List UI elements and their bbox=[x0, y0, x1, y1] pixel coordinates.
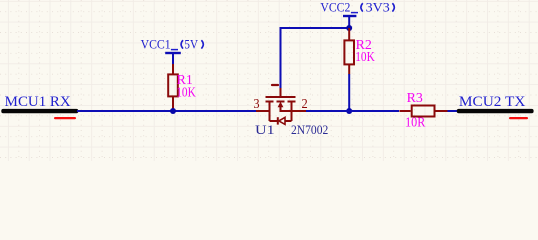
svg-text:10R: 10R bbox=[405, 115, 426, 130]
power port VCC2_(3V3) label bbox=[320, 0, 394, 14]
svg-text:10K: 10K bbox=[355, 49, 375, 64]
junction: R2 / output wire bbox=[346, 108, 352, 114]
svg-text:U1: U1 bbox=[255, 123, 275, 137]
power port VCC1 bar symbol bbox=[165, 53, 181, 64]
channel contact right bbox=[288, 101, 296, 103]
svg-text:VCC2: VCC2 bbox=[320, 0, 350, 14]
svg-text:2: 2 bbox=[302, 96, 308, 111]
pin 3 lead bbox=[256, 110, 270, 112]
power port VCC1_(5V) label bbox=[141, 37, 204, 51]
svg-text:3V3: 3V3 bbox=[366, 0, 390, 14]
channel contact middle bbox=[277, 101, 285, 103]
svg-text:3: 3 bbox=[253, 96, 260, 111]
wire: VCC2 to gate (horizontal + vertical to Q1 gate) bbox=[281, 28, 350, 88]
channel contact left bbox=[266, 101, 274, 103]
drain leg (pin 3 side) bbox=[269, 102, 271, 122]
resistor R2 pin 1 lead bbox=[348, 28, 350, 40]
svg-text:10K: 10K bbox=[176, 84, 196, 99]
resistor R2 body bbox=[344, 40, 354, 64]
pin number 1 (rotated) bbox=[272, 84, 278, 86]
gate bar bbox=[266, 96, 296, 98]
pin 2 lead bbox=[292, 110, 307, 112]
resistor R2 pin 2 lead bbox=[348, 64, 350, 74]
source leg (pin 2 side) bbox=[291, 102, 293, 122]
red marker under MCU2 TX bbox=[509, 117, 528, 119]
wire: R3 to MCU2 TX stub bbox=[448, 110, 460, 112]
svg-text:MCU1 RX: MCU1 RX bbox=[5, 94, 71, 110]
wire: Q1 pin 2 to R3 bbox=[306, 110, 399, 112]
body diode cathode bar bbox=[277, 117, 279, 124]
wire MCU1 RX thick stub bbox=[1, 109, 78, 113]
resistor R3 pin 1 lead bbox=[399, 110, 410, 112]
svg-text:5V: 5V bbox=[184, 37, 198, 51]
wire MCU2 TX thick stub bbox=[457, 109, 534, 113]
power port VCC2 bar symbol bbox=[343, 16, 356, 28]
resistor R1 pin 1 lead bbox=[172, 64, 174, 74]
body stub to source bbox=[281, 107, 292, 112]
wire: R2 to output net bbox=[348, 74, 350, 111]
red marker under MCU1 RX bbox=[54, 117, 76, 119]
transistor U1 (2N7002 N-MOSFET) bbox=[256, 88, 306, 125]
resistor R1 body bbox=[168, 74, 178, 96]
svg-text:2N7002: 2N7002 bbox=[291, 123, 328, 137]
wire: MCU1 RX to Q1 pin 3 bbox=[77, 110, 256, 112]
svg-text:VCC1: VCC1 bbox=[141, 37, 171, 51]
body diode triangle bbox=[279, 117, 285, 124]
pin 1 gate lead bbox=[280, 88, 282, 97]
body arrow (N-channel) bbox=[278, 102, 284, 108]
resistor R1 pin 2 lead bbox=[172, 96, 174, 111]
junction: VCC2 / R2 / gate wire bbox=[346, 25, 352, 31]
svg-text:MCU2 TX: MCU2 TX bbox=[459, 94, 526, 110]
resistor R3 pin 2 lead bbox=[436, 110, 448, 112]
svg-text:R3: R3 bbox=[407, 90, 423, 105]
resistor R3 body bbox=[412, 106, 435, 117]
body loop bottom bbox=[270, 120, 278, 122]
junction: R1 / MCU1 RX wire bbox=[170, 108, 176, 114]
